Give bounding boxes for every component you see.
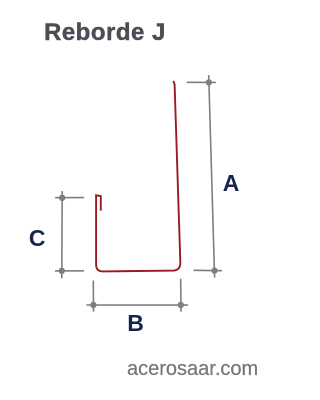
svg-text:C: C bbox=[29, 225, 46, 251]
svg-text:B: B bbox=[127, 310, 144, 336]
svg-text:A: A bbox=[223, 170, 240, 196]
